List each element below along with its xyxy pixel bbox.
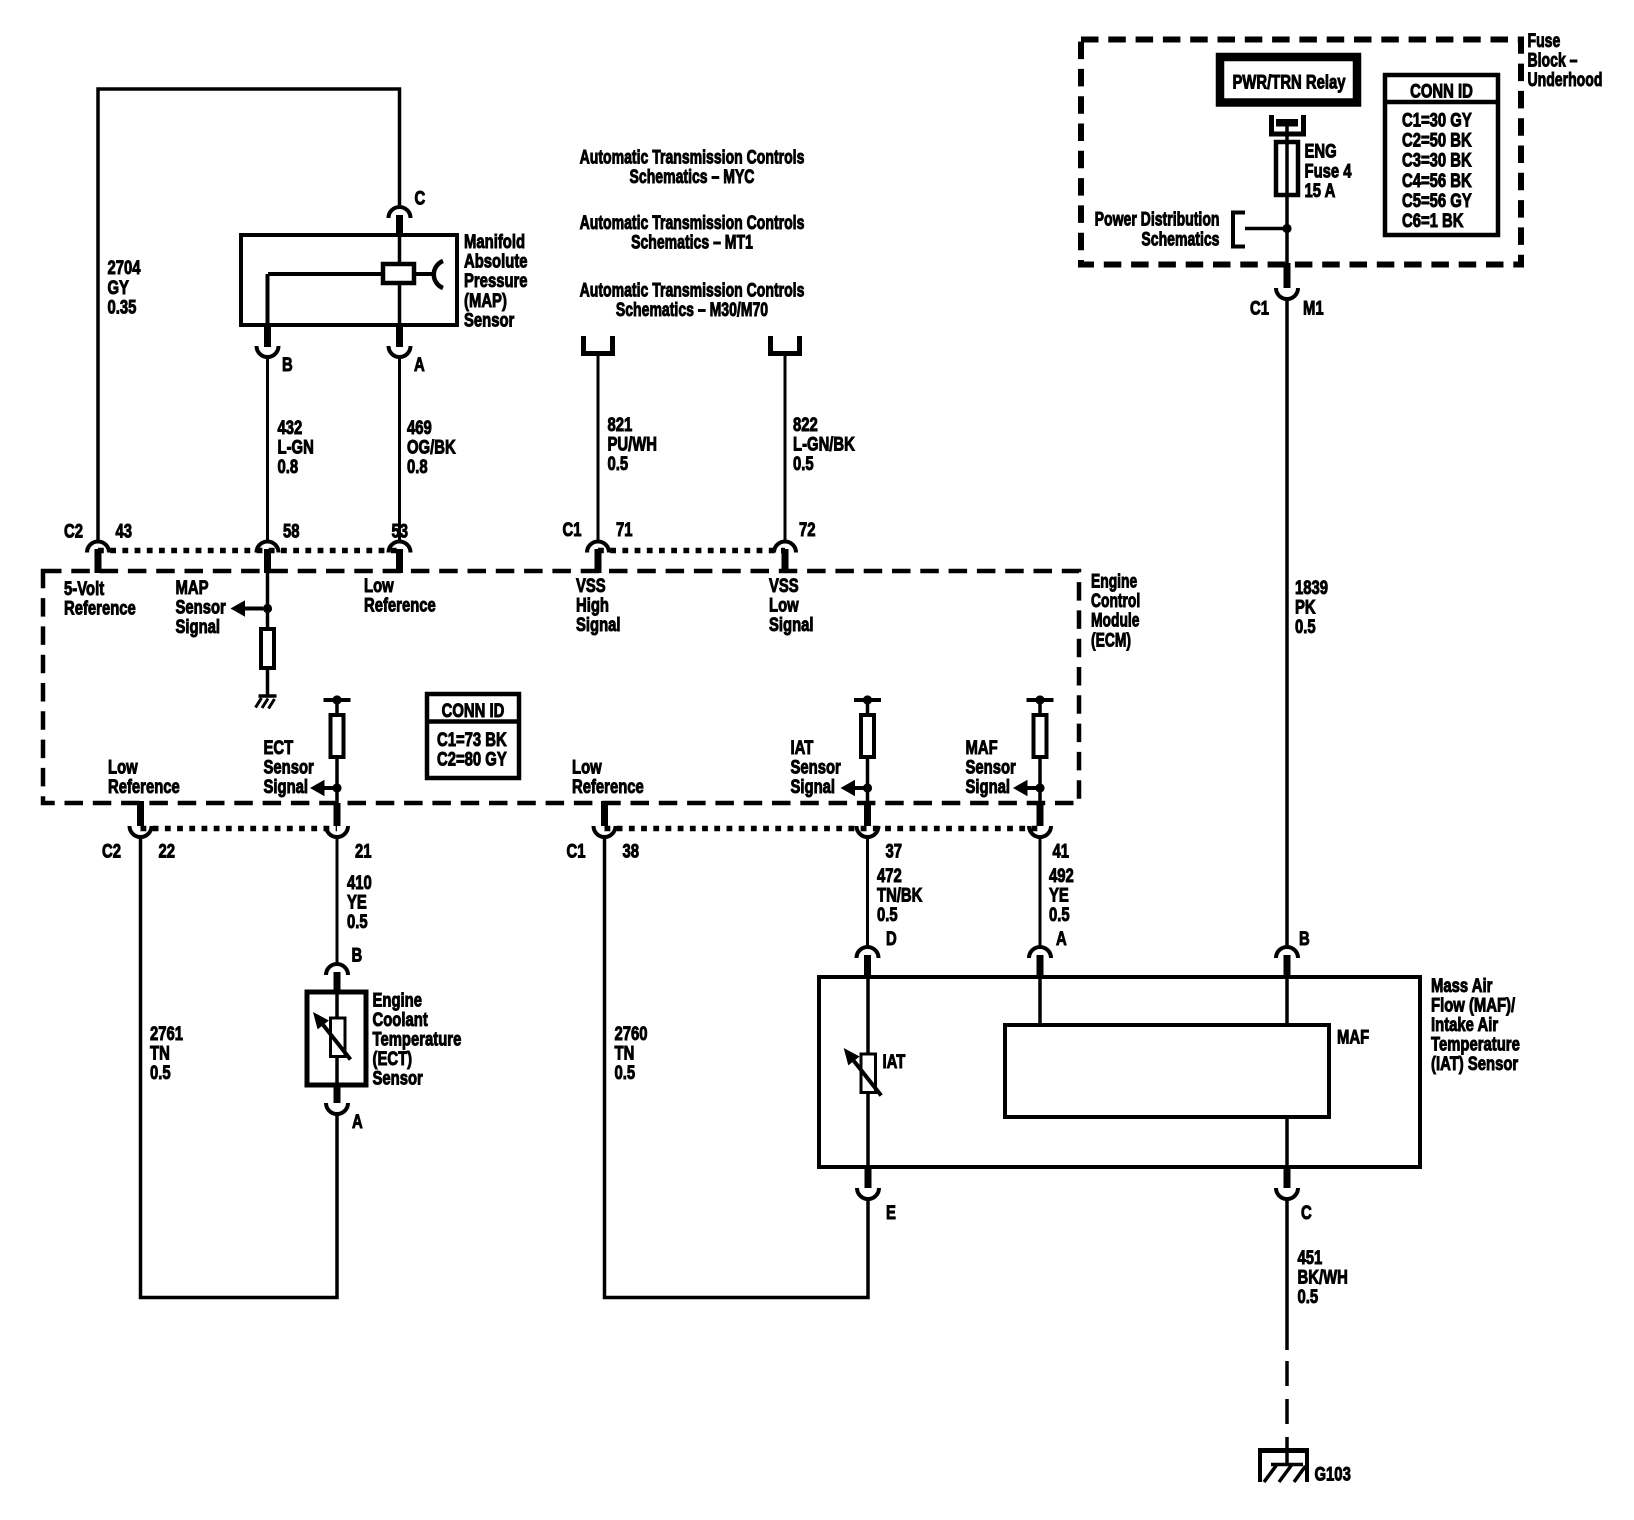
connector label C1 bottom <box>567 839 586 862</box>
connector pin D of MAF/IAT sensor <box>857 947 879 958</box>
junction T-bar MAF signal <box>1027 698 1054 702</box>
IAT element label <box>883 1050 906 1073</box>
wire label 2704 GY 0.35 <box>108 256 141 318</box>
wire 2760 TN 0.5 <box>605 837 869 1298</box>
svg-text:B: B <box>1299 927 1310 950</box>
arrow ECT sensor signal <box>310 780 325 797</box>
svg-text:Sensor: Sensor <box>464 308 515 331</box>
ECT sensor box <box>307 992 366 1085</box>
svg-text:0.8: 0.8 <box>278 455 299 478</box>
connector label C2 <box>64 519 83 542</box>
wire 822 L-GN/BK 0.5 <box>784 356 787 541</box>
svg-text:Signal: Signal <box>576 613 621 636</box>
CONN ID header (ECM) <box>442 699 505 722</box>
svg-text:72: 72 <box>799 518 816 541</box>
svg-text:A: A <box>414 353 425 376</box>
wire label 451 BK/WH 0.5 <box>1298 1246 1348 1308</box>
connector pin B of MAF/IAT sensor <box>1276 947 1298 958</box>
svg-text:A: A <box>1056 927 1067 950</box>
resistor ECM ECT pull-up <box>331 715 344 757</box>
pin label A (ECT) <box>352 1110 363 1133</box>
svg-text:22: 22 <box>159 839 176 862</box>
wire 2761 TN 0.5 <box>141 837 338 1298</box>
wire 492 YE 0.5 <box>1039 837 1042 948</box>
net label 5-Volt Reference <box>64 577 136 619</box>
reference note ATC MYC <box>580 145 805 188</box>
connector pin 22 (C2) <box>137 801 144 826</box>
arrow IAT sensor signal <box>841 780 856 797</box>
arrow MAF sensor signal <box>1013 780 1028 797</box>
relay name label <box>1232 70 1345 93</box>
svg-text:Reference: Reference <box>572 775 644 798</box>
dashed wire to ground G103 <box>1285 1361 1289 1448</box>
ECM internal ECT signal wire <box>335 700 339 715</box>
wire label 410 YE 0.5 <box>347 871 372 933</box>
MAP sensor name label <box>464 230 528 331</box>
wire pin A to MAF module <box>1038 977 1042 1025</box>
svg-text:B: B <box>282 353 293 376</box>
wire through fuse to junction <box>1285 142 1289 228</box>
connector pin 21 <box>334 803 341 826</box>
wire 821 PU/WH 0.5 <box>597 356 600 541</box>
svg-text:G103: G103 <box>1315 1462 1352 1485</box>
fuse ENG Fuse 4 15 A <box>1276 142 1298 195</box>
note Power Distribution <box>1095 207 1220 230</box>
pin label 41 <box>1053 839 1070 862</box>
reference note ATC MT1 <box>580 211 805 254</box>
chassis ground inside ECM <box>259 694 277 698</box>
wire label 1839 PK 0.5 <box>1295 576 1328 638</box>
wire label 432 L-GN 0.8 <box>278 416 314 478</box>
svg-text:C1: C1 <box>567 839 586 862</box>
ECM C1 bottom dotted line (pins 38-37-41) <box>605 826 1041 832</box>
pin label 22 <box>159 839 176 862</box>
wire label 2760 TN 0.5 <box>615 1022 648 1084</box>
junction T-bar IAT signal <box>854 698 881 702</box>
pin label B <box>282 353 293 376</box>
svg-text:C: C <box>1301 1201 1312 1224</box>
ground label G103 <box>1315 1462 1352 1485</box>
wire label 2761 TN 0.5 <box>150 1022 183 1084</box>
off-page connector bracket VSS low <box>771 336 800 354</box>
note Schematics <box>1141 227 1219 250</box>
junction dot fuse output <box>1282 224 1291 233</box>
svg-text:(IAT) Sensor: (IAT) Sensor <box>1431 1052 1518 1075</box>
ECM internal IAT signal wire <box>866 700 870 715</box>
PWR/TRN Relay box <box>1220 57 1357 103</box>
thermistor ECT <box>331 1018 346 1057</box>
thermistor IAT <box>861 1054 876 1093</box>
svg-text:C6=1 BK: C6=1 BK <box>1402 209 1464 232</box>
junction dot ECT signal <box>332 783 341 792</box>
svg-text:M1: M1 <box>1303 296 1324 319</box>
CONN ID rows (ECM) <box>437 728 507 770</box>
connector pin 58 <box>257 542 279 553</box>
net label IAT Sensor Signal <box>791 736 842 798</box>
svg-text:C2: C2 <box>102 839 121 862</box>
wire 472 TN/BK 0.5 <box>866 837 869 948</box>
net label Low Reference (C2 22) <box>108 755 180 797</box>
svg-text:0.5: 0.5 <box>615 1061 636 1084</box>
CONN ID rows (fuse block) <box>1402 108 1472 231</box>
connector pin A of ECT sensor <box>334 1083 341 1103</box>
wire pin B to MAF module <box>1285 977 1289 1025</box>
wire label 822 L-GN/BK 0.5 <box>793 413 855 475</box>
wire 451 BK/WH 0.5 <box>1285 1199 1289 1350</box>
wire 469 OG/BK 0.8 <box>398 357 401 541</box>
pin label B (ECT) <box>352 943 363 966</box>
svg-text:IAT: IAT <box>883 1050 906 1073</box>
svg-text:0.5: 0.5 <box>793 452 814 475</box>
wire MAF module to pin C <box>1285 1117 1289 1167</box>
svg-text:Reference: Reference <box>64 596 136 619</box>
connector pin 72 <box>774 542 796 553</box>
svg-text:0.5: 0.5 <box>1295 615 1316 638</box>
net label ECT Sensor Signal <box>264 736 315 798</box>
MAP sensor box <box>241 235 457 325</box>
pin label B (MAF) <box>1299 927 1310 950</box>
ECM C1 connector dotted line (pins 71-72) <box>598 548 785 554</box>
svg-text:C2: C2 <box>64 519 83 542</box>
connector C1/M1 below fuse block <box>1284 263 1291 288</box>
wire power distribution tap <box>1245 227 1287 231</box>
MAF/IAT sensor name label <box>1431 974 1520 1075</box>
svg-text:71: 71 <box>616 518 633 541</box>
ground G103 <box>1258 1448 1309 1453</box>
ECM C2 connector dotted line (pins 43-58-53) <box>98 548 400 554</box>
svg-text:Reference: Reference <box>364 593 436 616</box>
svg-text:0.35: 0.35 <box>108 295 137 318</box>
connector pin A of MAF/IAT sensor <box>1029 947 1051 958</box>
net label MAP Sensor Signal <box>176 576 227 638</box>
net label MAF Sensor Signal <box>966 736 1017 798</box>
net label VSS High Signal <box>576 574 621 636</box>
net label Low Reference <box>364 574 436 616</box>
connector pin 71 (C1) <box>587 542 609 553</box>
svg-text:21: 21 <box>355 839 372 862</box>
connector pin B of MAP sensor <box>264 323 271 347</box>
connector label C2 bottom <box>102 839 121 862</box>
ECM name label <box>1091 570 1140 651</box>
pin label D <box>886 927 897 950</box>
svg-text:58: 58 <box>283 519 300 542</box>
svg-text:CONN ID: CONN ID <box>1410 79 1473 102</box>
wire label 821 PU/WH 0.5 <box>608 413 657 475</box>
reference note ATC M30/M70 <box>580 278 805 321</box>
ECT sensor name label <box>373 988 462 1089</box>
svg-text:E: E <box>886 1201 896 1224</box>
connector pin C of MAP sensor <box>389 207 411 218</box>
svg-text:Schematics – MT1: Schematics – MT1 <box>631 230 753 253</box>
arrow MAP sensor signal <box>231 600 246 617</box>
MAF inner module box <box>1005 1025 1329 1117</box>
pin label 37 <box>886 839 903 862</box>
wire inside ECT sensor <box>335 992 339 1018</box>
pin label 58 <box>283 519 300 542</box>
svg-text:Schematics: Schematics <box>1141 227 1219 250</box>
wire pin C through MAP sensor to pin A <box>398 237 402 323</box>
wire label 492 YE 0.5 <box>1049 864 1074 926</box>
wire label 469 OG/BK 0.8 <box>407 416 456 478</box>
pin label 43 <box>116 519 133 542</box>
connector pin B of ECT sensor <box>326 964 348 975</box>
svg-text:A: A <box>352 1110 363 1133</box>
pin label 38 <box>623 839 640 862</box>
svg-text:Underhood: Underhood <box>1528 68 1603 91</box>
connector pin 53 <box>389 542 411 553</box>
pin label A (MAF) <box>1056 927 1067 950</box>
Fuse Block - Underhood dashed box <box>1081 40 1521 265</box>
svg-text:B: B <box>352 943 363 966</box>
svg-text:C1: C1 <box>1250 296 1269 319</box>
ECM internal MAF signal wire <box>1038 700 1042 715</box>
connector pin C of MAF/IAT sensor <box>1284 1165 1291 1188</box>
wire inside MAF/IAT sensor to IAT <box>866 977 870 1054</box>
svg-text:37: 37 <box>886 839 903 862</box>
svg-text:53: 53 <box>392 519 409 542</box>
connector label C1 <box>563 518 582 541</box>
svg-text:0.5: 0.5 <box>608 452 629 475</box>
svg-text:C2=80 GY: C2=80 GY <box>437 748 507 771</box>
net label VSS Low Signal <box>769 574 814 636</box>
svg-text:0.8: 0.8 <box>407 455 428 478</box>
MAF element label <box>1337 1025 1369 1048</box>
svg-text:0.5: 0.5 <box>877 903 898 926</box>
connector pin 43 (C2) <box>87 542 109 553</box>
wire 432 L-GN 0.8 <box>266 357 269 541</box>
svg-text:Signal: Signal <box>176 615 221 638</box>
svg-text:Schematics – MYC: Schematics – MYC <box>630 165 755 188</box>
connector pin 41 <box>1037 803 1044 826</box>
wire 1839 PK 0.5 from fuse block <box>1285 299 1289 948</box>
svg-text:0.5: 0.5 <box>347 910 368 933</box>
pin label 71 <box>616 518 633 541</box>
fuse block name label <box>1528 29 1603 91</box>
svg-text:0.5: 0.5 <box>1049 903 1070 926</box>
wire 2704 GY 5-volt reference loop <box>98 89 400 540</box>
svg-text:Schematics – M30/M70: Schematics – M30/M70 <box>616 298 768 321</box>
junction dot IAT signal <box>863 783 872 792</box>
connector label C1 (fuse) <box>1250 296 1269 319</box>
pin label 53 <box>392 519 409 542</box>
resistor ECM IAT pull-up <box>861 715 874 757</box>
MAP pressure transducer symbol <box>383 264 414 283</box>
junction dot MAF signal <box>1035 783 1044 792</box>
wire label 472 TN/BK 0.5 <box>877 864 923 926</box>
resistor ECM MAP pull <box>261 629 274 668</box>
MAF/IAT sensor box <box>819 977 1420 1167</box>
svg-text:(ECM): (ECM) <box>1091 629 1131 651</box>
pin label C (MAF) <box>1301 1201 1312 1224</box>
off-page connector bracket VSS high <box>584 336 613 354</box>
pin label E <box>886 1201 896 1224</box>
pin label C <box>415 186 426 209</box>
svg-text:C1: C1 <box>563 518 582 541</box>
connector pin A of MAP sensor <box>396 323 403 347</box>
pin label 72 <box>799 518 816 541</box>
svg-text:MAF: MAF <box>1337 1025 1369 1048</box>
svg-text:0.5: 0.5 <box>150 1061 171 1084</box>
fuse label ENG Fuse 4 15 A <box>1305 139 1352 201</box>
svg-text:D: D <box>886 927 897 950</box>
pin label A <box>414 353 425 376</box>
ECM internal MAP signal wire <box>266 573 270 629</box>
svg-text:PWR/TRN Relay: PWR/TRN Relay <box>1232 70 1345 93</box>
svg-text:Signal: Signal <box>769 613 814 636</box>
svg-text:Reference: Reference <box>108 775 180 798</box>
svg-text:0.5: 0.5 <box>1298 1285 1319 1308</box>
svg-text:41: 41 <box>1053 839 1070 862</box>
pin label 21 <box>355 839 372 862</box>
ECM C2 bottom dotted line (pins 22-21) <box>141 826 338 832</box>
Engine Control Module (ECM) dashed box <box>43 571 1079 803</box>
wire junction to fuse block connector <box>1285 229 1289 266</box>
svg-text:C: C <box>415 186 426 209</box>
CONN ID table (fuse block) <box>1385 75 1498 235</box>
junction dot MAP signal <box>263 604 272 613</box>
junction T-bar ECT signal <box>324 698 351 702</box>
svg-text:Signal: Signal <box>791 775 836 798</box>
svg-text:Sensor: Sensor <box>373 1066 424 1089</box>
net label Low Reference (C1 38) <box>572 755 644 797</box>
connector pin 38 (C1) <box>601 801 608 826</box>
svg-text:38: 38 <box>623 839 640 862</box>
CONN ID table (ECM) <box>427 694 519 778</box>
connector pin E of MAF/IAT sensor <box>865 1165 872 1188</box>
svg-text:Signal: Signal <box>966 775 1011 798</box>
wire 410 YE 0.5 <box>336 837 339 964</box>
relay contact terminal symbol <box>1272 115 1304 134</box>
svg-text:Signal: Signal <box>264 775 309 798</box>
resistor ECM MAF pull <box>1034 715 1047 757</box>
svg-text:43: 43 <box>116 519 133 542</box>
connector label M1 <box>1303 296 1324 319</box>
svg-text:CONN ID: CONN ID <box>442 699 505 722</box>
connector pin 37 <box>864 803 871 826</box>
CONN ID header (fuse block) <box>1410 79 1473 102</box>
svg-text:15 A: 15 A <box>1305 179 1336 202</box>
